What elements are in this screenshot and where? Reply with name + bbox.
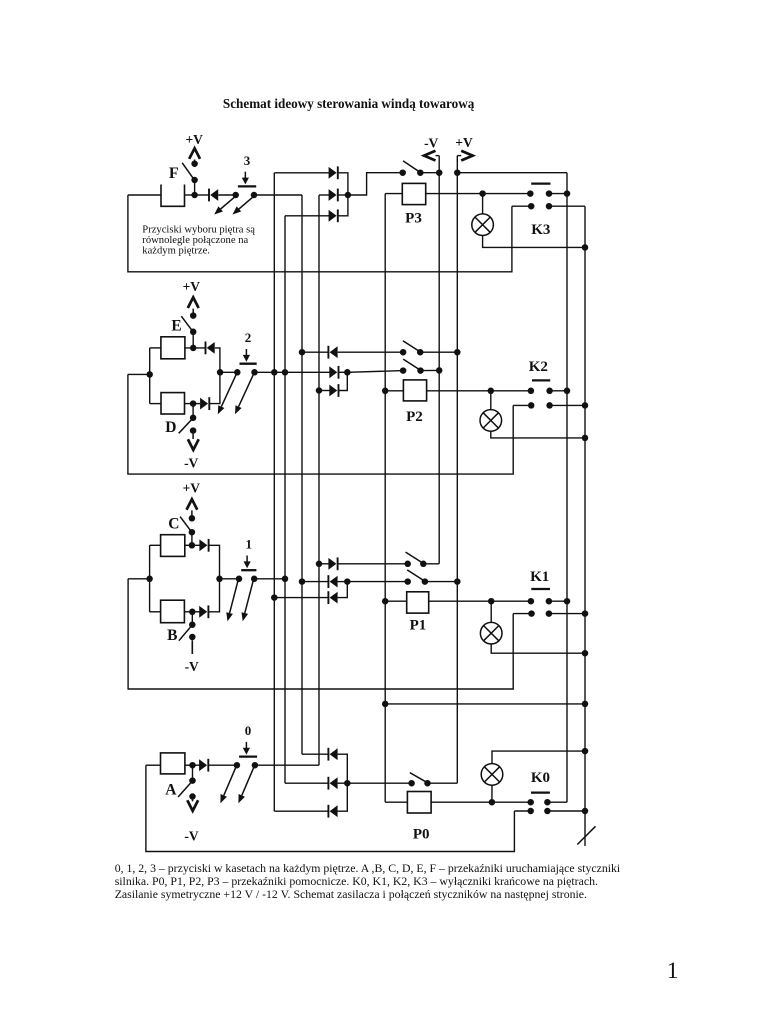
svg-text:P1: P1 xyxy=(410,618,427,634)
svg-text:+V: +V xyxy=(185,132,203,147)
svg-text:K1: K1 xyxy=(530,569,549,585)
wire bus-D to top diode 1 xyxy=(319,563,329,565)
button 1 left terminal xyxy=(236,576,243,583)
wire lamp junction to K1 contacts xyxy=(491,600,531,602)
upper seal switch 2 lever xyxy=(403,341,419,352)
svg-text:P2: P2 xyxy=(406,409,423,425)
top diode section3 (pointing right) xyxy=(329,167,337,179)
junction middle diode feed on bus-C xyxy=(299,578,306,585)
svg-text:K2: K2 xyxy=(529,359,548,375)
junction coil B / switch B xyxy=(189,609,196,616)
relay P2 coil xyxy=(403,380,426,401)
junction coil C / switch C xyxy=(189,542,196,549)
wire bus-C to middle diode 1 xyxy=(302,581,328,583)
junction lamp K3 top xyxy=(479,190,486,197)
switch E lever xyxy=(181,316,192,331)
wire seal switch 0 to +V rail end xyxy=(428,782,458,784)
bottom diode section3 (pointing right) xyxy=(329,210,337,222)
junction lamp K0 bottom xyxy=(489,799,496,806)
svg-text:2: 2 xyxy=(245,330,252,345)
wire K1 upper right to rail x=567 xyxy=(549,600,567,602)
relay coil D xyxy=(161,393,185,414)
lamp H2 xyxy=(480,410,502,432)
diode F (cathode left) xyxy=(195,194,209,196)
lamp H3 xyxy=(472,214,494,236)
limit switch K2 upper contacts xyxy=(528,388,535,395)
wire bottom diode feed section3 xyxy=(285,215,330,217)
wire relay-coil feed line x=385 xyxy=(384,194,386,803)
wire K0 upper right to rail x=567 end xyxy=(547,801,567,803)
button 3 left press arrow xyxy=(221,197,235,209)
junction K1 lower on right rail xyxy=(582,610,589,617)
junction lamp H1 return on right rail xyxy=(582,650,589,657)
upper seal switch 1 right terminal xyxy=(420,561,427,568)
wire diode F to button 3 xyxy=(218,194,236,196)
wire diode C elbow down to node CB xyxy=(209,545,220,579)
lamp H3 top lead xyxy=(482,194,484,214)
limit switch K2 lower contacts xyxy=(528,402,535,409)
wire K2 upper right to rail x=567 xyxy=(550,390,567,392)
junction +V rail / K3 feed xyxy=(454,169,461,176)
wire bottom diode 2 elbow to node 2 xyxy=(339,372,348,390)
svg-text:3: 3 xyxy=(244,153,251,168)
svg-text:silnika. P0, P1, P2, P3 – prze: silnika. P0, P1, P2, P3 – przekaźniki po… xyxy=(115,874,598,888)
wire node CB to button 1 xyxy=(220,578,240,580)
junction K2 lower on right rail xyxy=(582,402,589,409)
svg-text:F: F xyxy=(169,165,179,182)
junction top diode feed on bus-C xyxy=(299,349,306,356)
wire K-contact rail x=567 xyxy=(566,173,568,803)
wire right return rail x=585 xyxy=(584,206,586,846)
button 2 right press arrow xyxy=(239,374,254,406)
junction lamp H3 return on right rail xyxy=(582,244,589,251)
wire P3 feed corner xyxy=(385,193,402,195)
power -V symbol below switch A xyxy=(192,800,194,802)
button 3 plate bar xyxy=(238,185,256,187)
button 0 plate bar xyxy=(239,755,257,757)
svg-text:+V: +V xyxy=(455,135,473,150)
button 0 right terminal xyxy=(252,762,259,769)
relay coil F (open-top box) xyxy=(161,185,185,207)
svg-text:-V: -V xyxy=(184,829,198,844)
relay P1 coil xyxy=(407,592,429,613)
seal switch 0 left terminal xyxy=(408,780,415,787)
wire P3 coil to lamp junction xyxy=(426,193,483,195)
limit switch K0 upper contact bar xyxy=(531,791,550,793)
svg-text:D: D xyxy=(165,419,176,436)
junction upper seal 2 on +V rail xyxy=(454,349,461,356)
svg-text:1: 1 xyxy=(667,958,679,984)
top diode section1 (pointing right) xyxy=(328,558,336,570)
wire bus-C to top diode 2 xyxy=(302,351,328,353)
top diode section2 (cathode left) xyxy=(330,346,338,358)
switch B lower terminal xyxy=(189,634,196,641)
wire button3 to bus-C corner xyxy=(254,194,302,196)
wire coil E left xyxy=(150,347,161,349)
junction P1 feed xyxy=(382,598,389,605)
wire top diode 0 elbow down to node 0 xyxy=(338,754,348,783)
lamp H1 xyxy=(480,622,502,644)
wire K3 upper right xyxy=(549,193,567,195)
button 1 plate bar xyxy=(241,569,256,571)
svg-text:E: E xyxy=(171,318,181,335)
lamp H3 bottom return xyxy=(483,236,585,248)
limit switch K0 lower contacts xyxy=(527,808,534,815)
wire feed corner to P0 coil xyxy=(385,801,407,803)
diode A (cathode right) xyxy=(199,759,207,771)
node F-button3 xyxy=(191,192,198,199)
wire bus-C vertical x=302 (button3 line down to section0 top diode) xyxy=(301,195,303,754)
node ED xyxy=(217,369,224,376)
wire section0 left rail and bottom return xyxy=(146,765,515,851)
limit switch K1 lower contacts xyxy=(528,610,535,617)
node section1 output xyxy=(344,578,351,585)
switch F upper terminal xyxy=(191,160,198,167)
diode B (cathode right) xyxy=(199,606,207,618)
wire left link to section2 rail xyxy=(128,373,150,375)
seal switch 0 lever xyxy=(410,773,427,783)
wire seal switch P3 to -V rail xyxy=(420,172,439,174)
wire diode E elbow down to node ED xyxy=(215,348,220,372)
seal switch P3 right terminal xyxy=(417,169,424,176)
limit switch K2 upper contact bar xyxy=(532,379,550,381)
bottom diode section0 (cathode left) xyxy=(330,805,338,817)
svg-text:K0: K0 xyxy=(531,770,550,786)
wire K0 lower right to right rail xyxy=(547,810,585,812)
button 1 actuation arrow xyxy=(246,556,248,563)
junction K3 upper right on rail x=567 xyxy=(564,190,571,197)
lamp H1 bottom return xyxy=(491,644,585,653)
junction K0 lower on right rail xyxy=(582,808,589,815)
wire upper seal switch 2 to +V rail xyxy=(420,351,457,353)
wire middle diode 2 to node 2 xyxy=(339,371,348,373)
lower seal switch 1 lever xyxy=(407,570,424,581)
wire node3 up to P3 seal switch xyxy=(348,173,403,195)
wire left rail to coil A xyxy=(146,764,161,766)
relay P3 coil xyxy=(402,183,425,204)
svg-text:P3: P3 xyxy=(405,210,422,226)
svg-text:C: C xyxy=(168,515,179,532)
wire bottom diode 0 elbow up to node 0 xyxy=(338,783,348,811)
junction lamp K2 top xyxy=(488,388,495,395)
svg-text:1: 1 xyxy=(245,537,252,552)
wire bus-A to bottom diode 1 xyxy=(274,597,328,599)
switch A upper terminal xyxy=(189,777,196,784)
limit switch K3 upper contacts xyxy=(527,190,534,197)
seal switch P3 lever xyxy=(403,161,419,172)
wire diode A to button 0 xyxy=(208,764,237,766)
wire lamp junction to K2 contacts xyxy=(491,390,531,392)
junction bottom diode feed on bus-D xyxy=(316,387,323,394)
lower seal switch 2 left terminal xyxy=(400,367,407,374)
wire coil E right to diode xyxy=(185,347,206,349)
svg-text:+V: +V xyxy=(183,481,201,496)
switch A lever xyxy=(178,782,192,797)
svg-text:K3: K3 xyxy=(531,222,550,238)
junction button1 line end on bus-B xyxy=(282,576,289,583)
bottom diode section1 (cathode left) xyxy=(330,592,338,604)
button 2 actuation arrow xyxy=(245,349,247,356)
wire P0 coil to lamp junction xyxy=(431,801,492,803)
wire bus-B corner to middle diode 0 xyxy=(285,782,328,784)
wire lamp junction to K0 contacts xyxy=(492,801,531,803)
wire coil F to node xyxy=(185,194,195,196)
switch E upper terminal xyxy=(190,312,197,319)
button 0 left terminal xyxy=(234,762,241,769)
wire K2 lower right to right rail xyxy=(550,404,585,406)
button 0 right press arrow xyxy=(242,767,254,795)
wire node0 to seal switch 0 xyxy=(347,782,411,784)
switch D lever xyxy=(179,419,193,433)
button 3 right press arrow xyxy=(239,197,253,209)
limit switch K3 lower contacts xyxy=(528,203,535,210)
wire bus-D to bottom diode 2 xyxy=(319,390,330,392)
wire top diode 1 to upper seal switch xyxy=(338,563,408,565)
junction P2 feed xyxy=(382,388,389,395)
lamp H2 top lead xyxy=(490,391,492,410)
wire lower seal switch 2 to -V rail xyxy=(421,369,440,371)
seal switch P3 left terminal xyxy=(399,169,406,176)
lower seal switch 2 right terminal xyxy=(417,367,424,374)
bottom diode section2 (pointing right) xyxy=(329,385,337,397)
button 2 left press arrow xyxy=(221,374,236,406)
relay coil A xyxy=(161,753,185,774)
svg-text:Zasilanie symetryczne +12 V /: Zasilanie symetryczne +12 V / -12 V. Sch… xyxy=(115,887,587,901)
junction coil A / switch A xyxy=(189,762,196,769)
switch B upper terminal xyxy=(189,621,196,628)
wire bus-D vertical x=319 (section3 middle-diode feed down to button0 line) xyxy=(318,195,320,765)
junction tie line on right rail xyxy=(582,701,589,708)
wire K2 lower left to riser xyxy=(513,404,531,406)
junction lamp H2 return on right rail xyxy=(582,435,589,442)
top diode section0 (cathode left) xyxy=(330,748,338,760)
wire left link to section1 rail xyxy=(128,578,150,580)
wire section1 left rail and bottom return xyxy=(128,579,513,689)
power -V symbol below switch D xyxy=(192,434,194,439)
junction K2 upper on rail x=567 xyxy=(564,388,571,395)
wire coil C-B left link xyxy=(149,545,151,612)
wire coil C left xyxy=(150,544,161,546)
lamp H0 bottom lead xyxy=(491,785,493,802)
switch D lower terminal xyxy=(190,427,197,434)
wire coil D left xyxy=(150,403,161,405)
lamp H0 top lead to right rail xyxy=(492,751,585,764)
wire K0 lower left to riser xyxy=(514,810,530,812)
wire upper seal switch 1 to -V rail end xyxy=(423,563,439,565)
lower seal switch 1 left terminal xyxy=(404,578,411,585)
switch C lever xyxy=(180,517,191,532)
button 3 right terminal xyxy=(251,192,258,199)
switch C lower terminal xyxy=(189,529,196,536)
svg-text:0, 1, 2, 3 – przyciski w kaset: 0, 1, 2, 3 – przyciski w kasetach na każ… xyxy=(115,861,621,875)
wire +V rail to K3 upper contact xyxy=(457,172,567,174)
relay coil E xyxy=(161,337,185,359)
wire bus-D top corner to middle diode 3 xyxy=(319,194,330,196)
switch A lower terminal xyxy=(189,793,196,800)
wire button2 line to middle diode 2 xyxy=(255,371,331,373)
upper seal switch 2 left terminal xyxy=(400,349,407,356)
diode C (cathode right) xyxy=(199,539,207,551)
switch F lever xyxy=(182,163,194,179)
junction button2 line on bus-A xyxy=(271,369,278,376)
wire +V rail x=457 xyxy=(456,156,458,784)
diode E (cathode left) xyxy=(207,342,215,354)
wire middle diode to node 3 xyxy=(338,194,348,196)
node section0 output xyxy=(344,780,351,787)
wire lamp junction to K3 contacts xyxy=(483,193,531,195)
svg-text:-V: -V xyxy=(184,455,198,470)
junction bottom diode feed on bus-A xyxy=(271,594,278,601)
wire top diode feed section3 xyxy=(274,172,329,174)
lamp H1 top lead xyxy=(490,601,492,622)
wire middle diode 1 to node 1 xyxy=(338,581,348,583)
wire diode D elbow up to node ED xyxy=(209,372,220,403)
wire coil C right to diode xyxy=(185,544,200,546)
junction left link 1 to rail xyxy=(146,576,153,583)
limit switch K1 upper contacts xyxy=(528,598,535,605)
wire bus-C corner to top diode 0 xyxy=(302,753,328,755)
button 2 right terminal xyxy=(251,369,258,376)
wire section3 left rail and bottom return xyxy=(128,195,512,272)
middle diode section0 (cathode left) xyxy=(330,777,338,789)
button 3 left terminal xyxy=(232,192,239,199)
wire coil D right to diode xyxy=(185,403,201,405)
node section2 output xyxy=(344,369,351,376)
upper seal switch 2 right terminal xyxy=(417,349,424,356)
upper seal switch 1 left terminal xyxy=(404,561,411,568)
wire section2 left rail and bottom return xyxy=(128,374,513,474)
lamp H2 bottom return xyxy=(491,431,585,438)
junction button2 line on bus-B xyxy=(282,369,289,376)
seal switch 0 right terminal xyxy=(424,780,431,787)
junction lamp K1 top xyxy=(488,598,495,605)
junction tie line on feed xyxy=(382,701,389,708)
junction lower seal 1 on +V rail xyxy=(454,578,461,585)
button 0 left press arrow xyxy=(224,767,236,795)
lower seal switch 1 right terminal xyxy=(422,578,429,585)
svg-text:B: B xyxy=(167,627,177,644)
svg-text:każdym piętrze.: każdym piętrze. xyxy=(142,246,210,257)
diode D (cathode right) xyxy=(200,398,208,410)
svg-text:-V: -V xyxy=(424,136,438,151)
wire diode B elbow up to node CB xyxy=(208,579,219,612)
button 0 actuation arrow xyxy=(245,742,247,749)
continuation slash on right rail xyxy=(577,826,595,844)
wire K1 lower right to right rail xyxy=(549,613,585,615)
wire button1 line to bus-B xyxy=(254,578,285,580)
svg-text:A: A xyxy=(165,781,177,798)
limit switch K0 upper contacts xyxy=(527,799,534,806)
wire bus-A vertical x=274 (button3 top-diode feed down to section0 bottom diode) xyxy=(273,173,275,811)
wire top diode 2 to seal switch xyxy=(338,351,404,353)
svg-text:P0: P0 xyxy=(413,827,430,843)
middle diode section2 (pointing right) xyxy=(329,366,337,378)
wire P1 coil to lamp junction xyxy=(429,600,492,602)
switch D upper terminal xyxy=(190,415,197,422)
limit switch K3 upper contact bar xyxy=(531,182,550,184)
button 2 plate bar xyxy=(240,363,257,365)
lower seal switch 2 lever xyxy=(403,359,419,370)
button 1 left press arrow xyxy=(230,581,238,613)
svg-text:-V: -V xyxy=(185,659,199,674)
svg-text:równolegle połączone na: równolegle połączone na xyxy=(142,235,248,246)
relay P0 coil xyxy=(407,792,431,814)
wire middle diode 0 to node 0 xyxy=(338,782,348,784)
wire coil A right to diode xyxy=(185,764,200,766)
switch B lever xyxy=(179,626,192,641)
junction K1 upper on rail x=567 xyxy=(564,598,571,605)
junction left link to rail xyxy=(146,371,153,378)
switch F lower terminal xyxy=(191,177,198,184)
junction coil D / switch D xyxy=(190,400,197,407)
wire bottom diode elbow to node 3 xyxy=(338,195,348,216)
wire coil B right to diode xyxy=(184,611,199,613)
limit switch K1 upper contact bar xyxy=(531,588,550,590)
junction lamp H0 top on right rail xyxy=(582,748,589,755)
wire node1 to lower seal switch xyxy=(347,581,407,583)
button 1 right press arrow xyxy=(245,581,253,613)
wire coil B left xyxy=(150,611,161,613)
relay coil B xyxy=(161,600,185,623)
wire K3 lower left to riser xyxy=(512,205,531,207)
button 3 actuation arrow xyxy=(244,172,246,179)
switch C upper terminal xyxy=(189,515,196,522)
junction lower seal 2 on -V rail xyxy=(436,367,443,374)
wire bottom diode 1 elbow to node 1 xyxy=(338,582,348,598)
junction top diode feed on bus-D xyxy=(316,561,323,568)
wire top diode elbow to node 3 xyxy=(338,173,348,195)
junction coil E / switch E xyxy=(190,345,197,352)
wire feed to P2 coil xyxy=(385,390,403,392)
node CB xyxy=(216,576,223,583)
svg-text:Schemat ideowy sterowania wind: Schemat ideowy sterowania windą towarową xyxy=(223,96,475,111)
upper seal switch 1 lever xyxy=(406,552,423,563)
wire node ED to button 2 xyxy=(220,371,237,373)
middle diode section1 (cathode left) xyxy=(330,576,338,588)
button 1 right terminal xyxy=(251,576,258,583)
wire K3 lower right to right rail xyxy=(549,205,585,207)
junction -V rail / seal switch 3 xyxy=(436,169,443,176)
power -V stub below switch B xyxy=(191,640,193,654)
wire coil E-D left link xyxy=(149,348,151,404)
wire lower seal switch 1 to +V rail xyxy=(425,581,457,583)
wire K1 lower left to riser xyxy=(513,613,531,615)
svg-text:0: 0 xyxy=(245,723,252,738)
node section3 output xyxy=(345,192,352,199)
button 2 left terminal xyxy=(234,369,241,376)
wire P2 coil to lamp junction xyxy=(427,390,491,392)
svg-text:Przyciski wyboru piętra są: Przyciski wyboru piętra są xyxy=(142,224,255,235)
svg-text:+V: +V xyxy=(183,279,201,294)
wire left-rail to coil F xyxy=(128,194,161,196)
middle diode section3 (pointing right) xyxy=(329,189,337,201)
wire feed to P1 coil xyxy=(385,600,407,602)
wire button0 line to bus-D end xyxy=(255,764,319,766)
wire bus-B vertical x=285 (section3 bottom-diode feed down to section0 middle diode) xyxy=(284,216,286,783)
wire -V rail x=439 xyxy=(438,156,440,564)
lamp H0 xyxy=(481,764,503,786)
wire tie line feed-to-right-rail y=704 xyxy=(385,703,585,705)
wire node2 to lower seal switch xyxy=(347,371,403,373)
wire bus-A corner to bottom diode 0 xyxy=(274,810,328,812)
switch E lower terminal xyxy=(190,329,197,336)
relay coil C xyxy=(161,535,185,557)
